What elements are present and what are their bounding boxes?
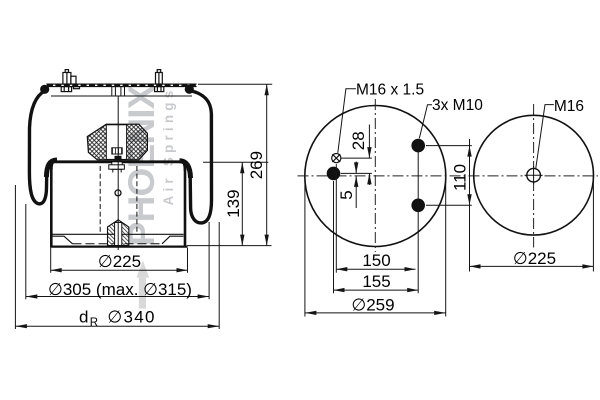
piston right wall xyxy=(184,169,187,246)
ext lines d305 xyxy=(25,204,27,299)
outer circle xyxy=(474,115,594,235)
left bead xyxy=(40,85,49,94)
svg-text:110: 110 xyxy=(451,164,470,191)
dim line 269 xyxy=(266,84,268,245)
svg-text:PHOENIX: PHOENIX xyxy=(121,84,162,246)
dim 5 xyxy=(355,162,357,209)
svg-text:Air Springs: Air Springs xyxy=(161,87,176,206)
centre hole M16 xyxy=(527,168,541,182)
ext line 139 top xyxy=(203,161,268,163)
svg-text:28: 28 xyxy=(349,131,368,150)
ext line 269 top xyxy=(198,83,272,85)
svg-text:∅305 (max. ∅315): ∅305 (max. ∅315) xyxy=(48,280,192,299)
piston bolt pocket xyxy=(109,156,125,172)
dim line 155 xyxy=(334,289,419,291)
air fitting M16x1.5 xyxy=(332,154,341,163)
svg-text:155: 155 xyxy=(362,272,390,291)
horizontal centreline shared xyxy=(298,175,599,177)
piston bottom band xyxy=(50,234,188,246)
svg-text:5: 5 xyxy=(337,190,356,199)
ext lines middle bottom xyxy=(305,140,446,317)
vent hole xyxy=(115,190,121,196)
right bead xyxy=(185,85,194,94)
outer circle xyxy=(305,106,446,247)
svg-text:3x M10: 3x M10 xyxy=(432,97,483,114)
M10 hole lower xyxy=(411,199,425,213)
bumper (hatched) xyxy=(87,124,147,160)
ext line bottom xyxy=(187,245,272,247)
dim line d225 xyxy=(51,269,188,271)
bumper nut xyxy=(112,148,122,154)
ext lines d225 xyxy=(50,248,52,273)
top plate xyxy=(46,84,196,87)
svg-text:150: 150 xyxy=(362,251,390,270)
dim line d259 xyxy=(305,312,446,314)
svg-text:∅225: ∅225 xyxy=(98,252,141,271)
svg-text:M16: M16 xyxy=(554,98,584,115)
piston top surface xyxy=(52,162,184,163)
dim 28 xyxy=(341,125,372,186)
piston centre boss (hatched) xyxy=(108,220,129,246)
vertical centreline xyxy=(533,104,535,248)
svg-text:∅259: ∅259 xyxy=(351,295,394,314)
left bolt xyxy=(61,70,79,92)
svg-text:M16 x 1.5: M16 x 1.5 xyxy=(356,81,424,98)
piston left wall xyxy=(50,168,53,246)
dim line d305 xyxy=(26,296,209,298)
M10 hole upper xyxy=(411,139,425,153)
leader 3x M10 xyxy=(419,105,432,139)
bellows left corner roll xyxy=(46,160,57,177)
leader M16x1.5 xyxy=(338,89,356,153)
dim d225 right xyxy=(470,177,594,272)
arrows left view xyxy=(15,84,269,328)
centre hole cross xyxy=(525,174,543,176)
vertical centreline xyxy=(374,99,376,252)
bumper centre column xyxy=(106,125,126,160)
bellows left wall xyxy=(29,91,52,204)
top plate lower line xyxy=(51,95,192,97)
dim line 139 xyxy=(241,162,243,245)
dim 110 xyxy=(426,139,472,272)
svg-text:∅225: ∅225 xyxy=(513,249,556,268)
centreline left view xyxy=(117,97,119,251)
bellows right corner roll xyxy=(180,161,191,178)
dim line 150 xyxy=(336,268,415,270)
svg-text:139: 139 xyxy=(224,189,243,217)
leader M16 xyxy=(536,105,554,169)
right bolt xyxy=(155,70,164,92)
svg-text:269: 269 xyxy=(247,151,266,179)
bellows right wall xyxy=(183,91,211,223)
top stud xyxy=(112,87,125,96)
hidden bore lines xyxy=(99,166,101,233)
watermark arrow xyxy=(137,261,150,309)
dim line d340 xyxy=(15,325,219,327)
blind hole xyxy=(327,167,341,181)
ext lines d340 xyxy=(14,185,16,329)
